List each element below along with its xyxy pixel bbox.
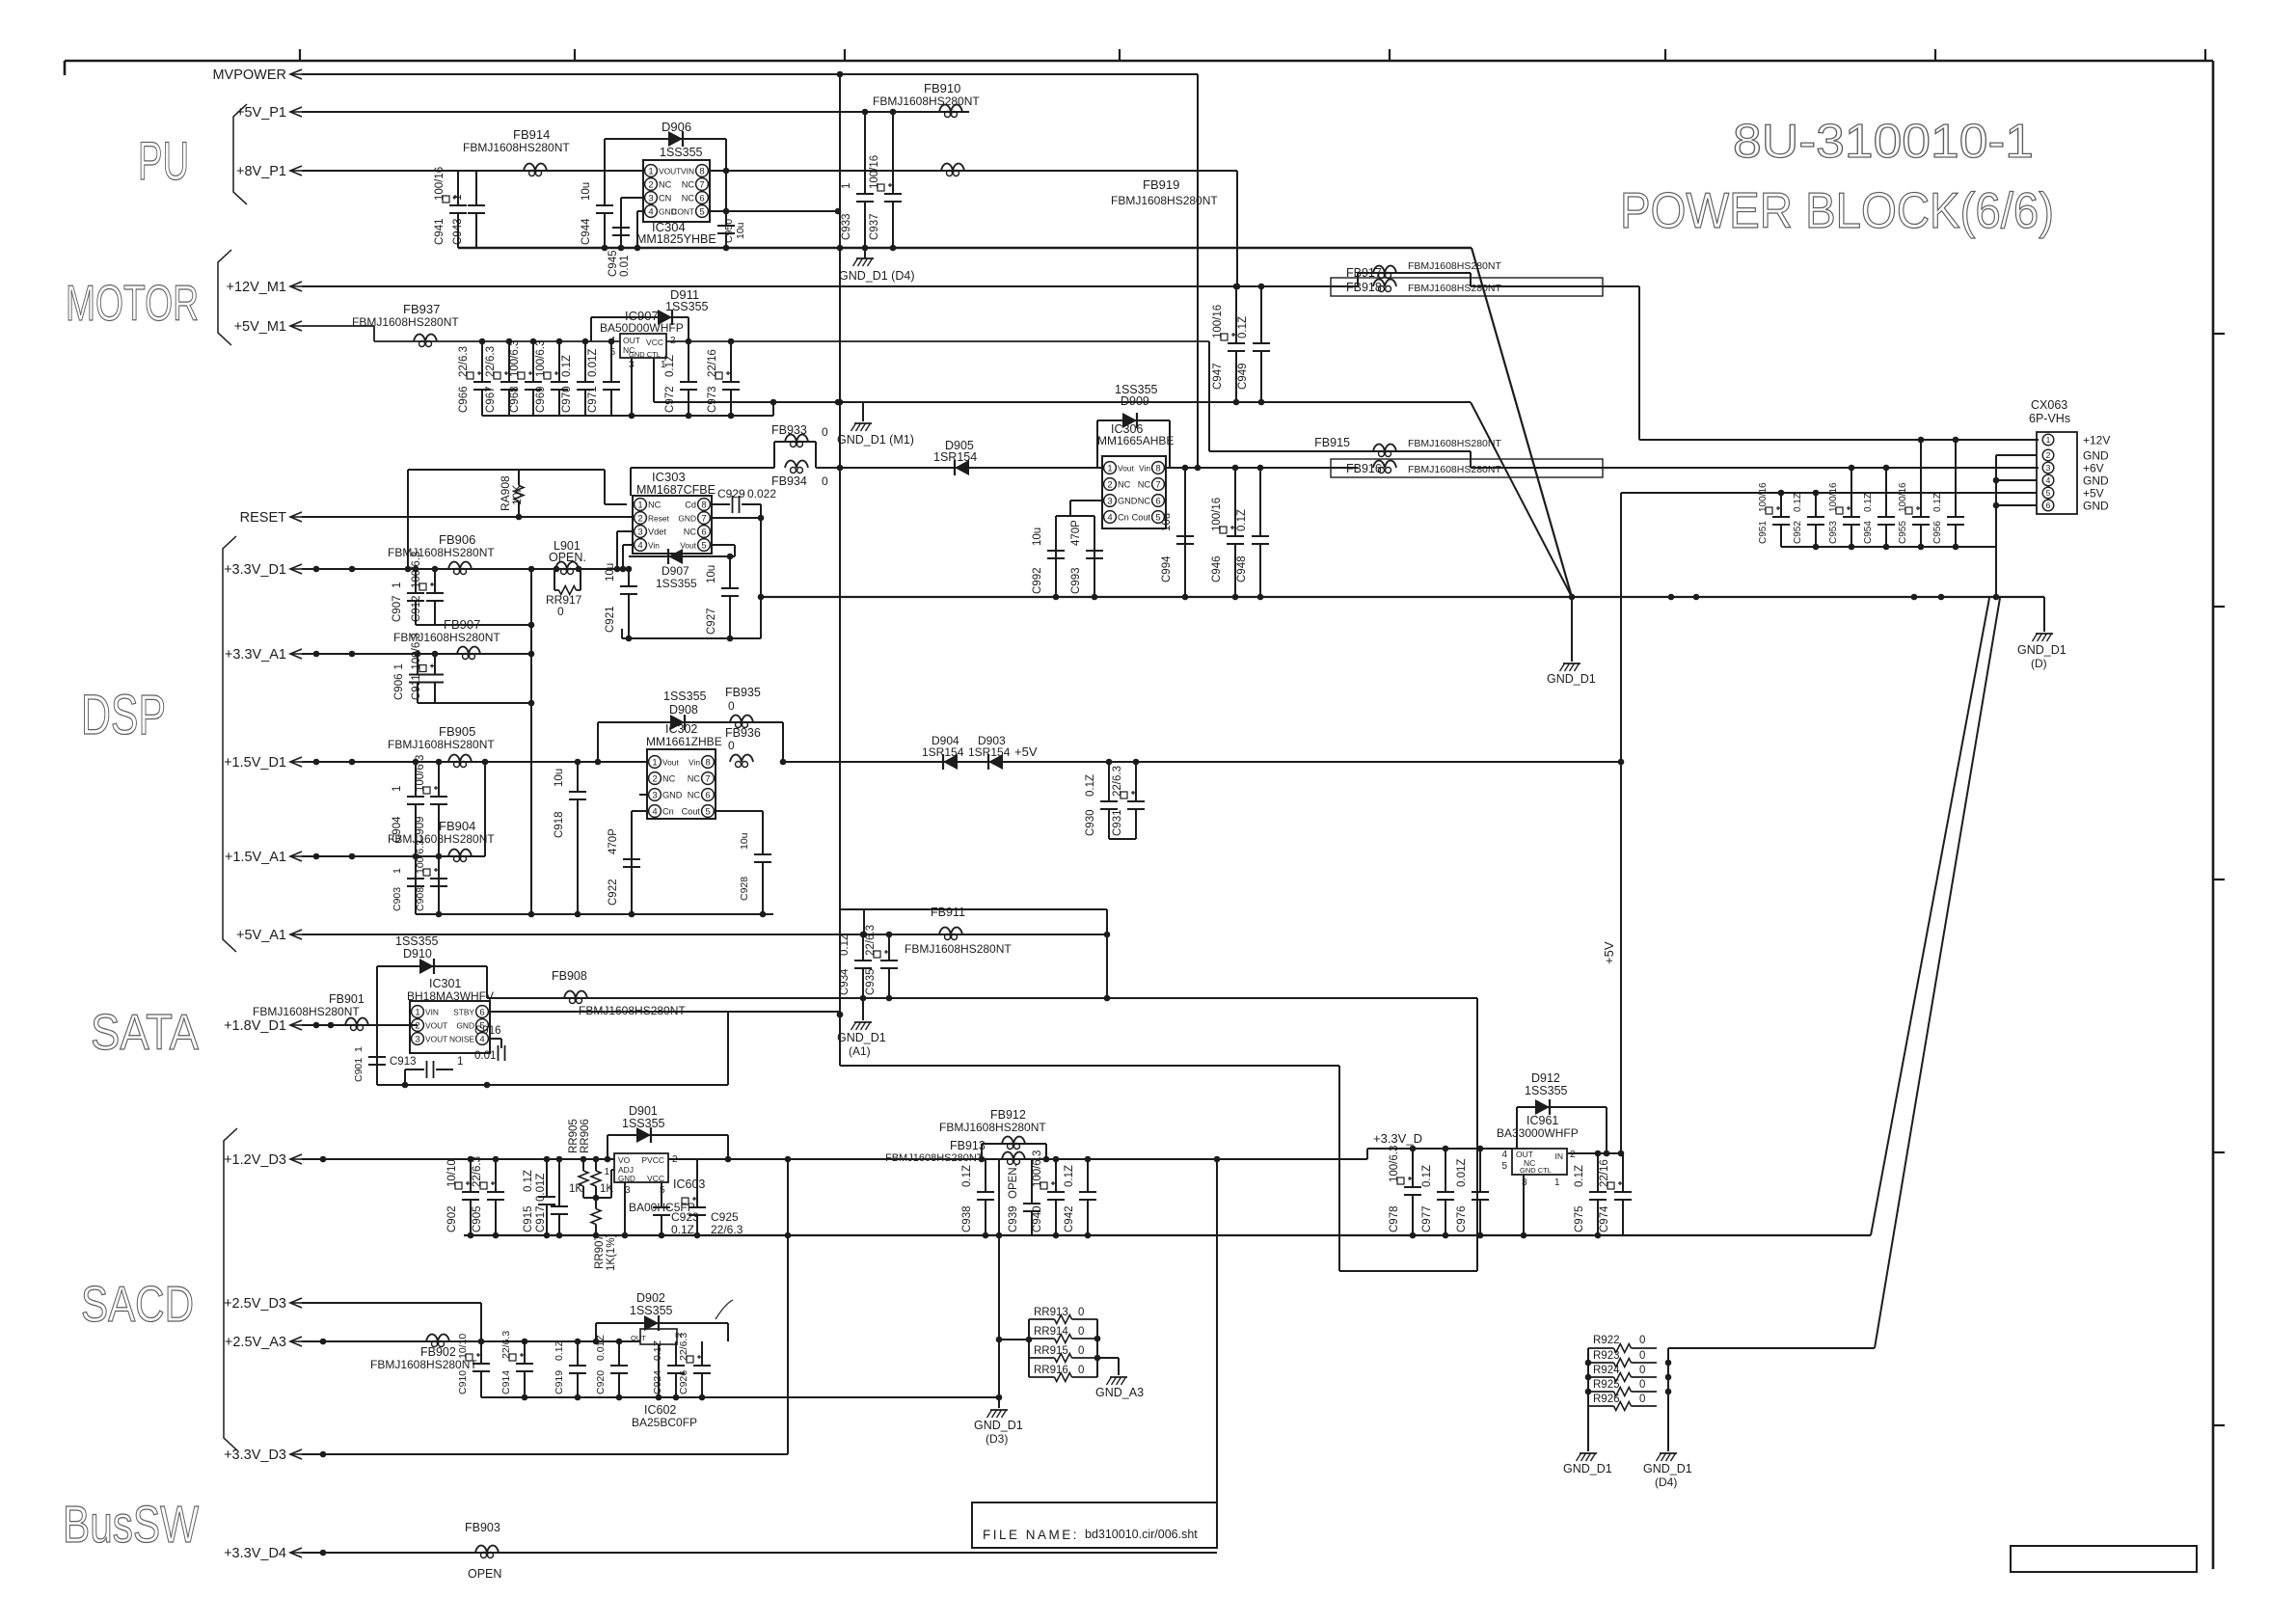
svg-text:C919: C919: [554, 1370, 565, 1394]
capacitor C950: [717, 211, 746, 248]
svg-text:0: 0: [1078, 1326, 1084, 1338]
svg-text:(A1): (A1): [849, 1044, 871, 1058]
svg-text:6: 6: [1155, 496, 1160, 506]
svg-text:0.1Z: 0.1Z: [1574, 1165, 1585, 1187]
svg-text:C944: C944: [581, 218, 592, 245]
svg-text:NC: NC: [688, 791, 701, 800]
svg-text:FB914: FB914: [513, 127, 550, 142]
node +5V label: [1014, 744, 1038, 759]
capacitor C925: [682, 1159, 743, 1236]
svg-text:FBMJ1608HS280NT: FBMJ1608HS280NT: [1111, 194, 1218, 207]
resistor R923: [1588, 1350, 1657, 1367]
capacitor C974: [1599, 1153, 1632, 1235]
svg-text:1SS355: 1SS355: [622, 1117, 665, 1130]
svg-text:FBMJ1608HS280NT: FBMJ1608HS280NT: [1408, 283, 1501, 294]
svg-text:1SS355: 1SS355: [630, 1304, 673, 1317]
op-amp IC303: [633, 470, 716, 554]
svg-text:C929: C929: [717, 487, 745, 501]
svg-text:C933: C933: [841, 214, 852, 241]
section bracket PU: [233, 104, 247, 204]
capacitor C910: [457, 1334, 490, 1397]
svg-text:GND: GND: [2083, 500, 2109, 513]
svg-text:GND: GND: [662, 791, 683, 800]
svg-text:1SS355: 1SS355: [660, 146, 703, 159]
wire IC304 pin4 GND stub: [637, 211, 644, 248]
svg-text:C901: C901: [353, 1058, 365, 1082]
capacitor C911: [411, 633, 444, 703]
svg-text:0: 0: [728, 699, 735, 713]
svg-text:MOTOR: MOTOR: [66, 276, 199, 332]
svg-text:C925: C925: [711, 1210, 739, 1224]
capacitor C943: [452, 171, 485, 248]
wire diagonal bus to SACD bus: [1871, 598, 1989, 1235]
node +8V_P1: [236, 164, 1237, 179]
svg-text:1SR154: 1SR154: [933, 450, 977, 464]
capacitor C927: [706, 556, 739, 638]
wire FB934 to D905: [816, 465, 1102, 472]
capacitor C953: [1828, 468, 1860, 547]
svg-text:Reset: Reset: [648, 514, 670, 524]
svg-text:0.1Z: 0.1Z: [1793, 493, 1803, 512]
capacitor C940: [1032, 1150, 1065, 1235]
svg-text:1: 1: [841, 183, 852, 189]
svg-text:MVPOWER: MVPOWER: [212, 68, 286, 83]
svg-text:D910: D910: [403, 947, 432, 961]
svg-text:NC: NC: [682, 180, 695, 190]
svg-text:1SR154: 1SR154: [968, 745, 1011, 759]
svg-text:R925: R925: [1593, 1379, 1620, 1391]
resistor RR917: [546, 586, 582, 619]
svg-text:2: 2: [1107, 479, 1112, 490]
svg-text:C954: C954: [1863, 521, 1874, 544]
svg-text:1: 1: [604, 1167, 609, 1177]
svg-text:C975: C975: [1574, 1206, 1585, 1233]
ground GND_D1 center: [1547, 597, 1596, 686]
svg-text:C934: C934: [839, 968, 851, 995]
node +3.3V_A1: [225, 647, 531, 663]
svg-text:C950: C950: [723, 219, 735, 243]
svg-text:0.1Z: 0.1Z: [1421, 1165, 1433, 1187]
capacitor C993: [1070, 520, 1103, 597]
svg-text:C911: C911: [411, 674, 422, 700]
wire PU bottom rail: [458, 245, 1472, 252]
svg-text:470P: 470P: [608, 828, 619, 854]
capacitor C935: [865, 925, 898, 998]
svg-text:FBMJ1608HS280NT: FBMJ1608HS280NT: [579, 1004, 686, 1017]
svg-text:100/6.3: 100/6.3: [415, 755, 426, 792]
svg-text:OPEN.: OPEN.: [1008, 1164, 1019, 1199]
svg-text:C913: C913: [390, 1056, 417, 1068]
resistor RA908 box: [408, 470, 627, 569]
wire +12V to connector: [1471, 286, 2039, 443]
svg-text:C974: C974: [1599, 1205, 1610, 1232]
ferrite bead FB914: [463, 127, 570, 176]
svg-text:Vout: Vout: [662, 758, 679, 768]
svg-text:6: 6: [701, 527, 706, 537]
capacitor C944: [581, 171, 613, 248]
revision box: [2011, 1546, 2197, 1572]
svg-text:0.1Z: 0.1Z: [664, 355, 676, 377]
svg-text:GND_D1: GND_D1: [2017, 643, 2066, 657]
svg-text:C972: C972: [664, 387, 676, 414]
wire IC603 gnd stub: [624, 1182, 626, 1235]
svg-text:C906: C906: [393, 674, 405, 701]
svg-text:0.01Z: 0.01Z: [535, 1174, 547, 1202]
svg-text:2: 2: [2046, 450, 2051, 460]
capacitor C968: [509, 340, 542, 416]
svg-text:C971: C971: [587, 387, 599, 414]
svg-text:2: 2: [637, 513, 642, 524]
svg-text:22/16: 22/16: [1599, 1159, 1610, 1187]
svg-text:C949: C949: [1237, 364, 1249, 391]
capacitor C952: [1793, 493, 1824, 547]
svg-text:3: 3: [415, 1034, 419, 1044]
regulator IC306: [1097, 422, 1174, 528]
title text 8U-310010-1: [1733, 116, 2034, 168]
svg-text:10/10: 10/10: [446, 1159, 458, 1187]
node MVPOWER: [212, 68, 1198, 83]
svg-text:4: 4: [652, 806, 657, 817]
node +3.3V_D3: [224, 1448, 788, 1463]
capacitor C922: [608, 828, 640, 914]
svg-text:C967: C967: [485, 387, 497, 414]
svg-text:Cd: Cd: [685, 501, 696, 510]
svg-text:C931: C931: [1112, 810, 1123, 837]
capacitor C967: [485, 341, 518, 416]
svg-text:5: 5: [1155, 512, 1160, 523]
ferrite bead FB934: [771, 461, 828, 489]
svg-text:C956: C956: [1932, 521, 1943, 544]
regulator IC302: [646, 722, 722, 819]
diode D904: [922, 734, 964, 770]
svg-text:(D3): (D3): [986, 1432, 1008, 1446]
svg-text:FB916: FB916: [1346, 462, 1382, 475]
svg-text:C993: C993: [1070, 568, 1082, 595]
capacitor C942: [1064, 1159, 1096, 1235]
capacitor C975: [1574, 1153, 1607, 1235]
svg-text:C947: C947: [1212, 364, 1224, 391]
svg-text:FBMJ1608HS280NT: FBMJ1608HS280NT: [905, 942, 1012, 956]
svg-text:CN: CN: [659, 194, 671, 203]
svg-text:C941: C941: [434, 219, 446, 246]
svg-text:MM1661ZHBE: MM1661ZHBE: [646, 735, 722, 748]
capacitor C906: [393, 654, 426, 703]
svg-text:0.1Z: 0.1Z: [1863, 493, 1874, 512]
svg-text:C915: C915: [523, 1206, 534, 1233]
svg-text:0: 0: [822, 425, 828, 439]
svg-text:FB936: FB936: [725, 726, 761, 740]
svg-text:22/6.3: 22/6.3: [485, 346, 497, 377]
svg-text:C992: C992: [1032, 568, 1043, 595]
svg-text:FB934: FB934: [771, 474, 807, 488]
svg-text:1K(1%): 1K(1%): [606, 1233, 617, 1271]
svg-text:0.01Z: 0.01Z: [587, 349, 599, 377]
svg-text:2: 2: [1570, 1150, 1576, 1160]
svg-text:3: 3: [1107, 496, 1112, 506]
diode D911: [591, 287, 709, 341]
svg-text:1SR154: 1SR154: [922, 745, 964, 759]
svg-text:0.01: 0.01: [474, 1050, 496, 1062]
svg-text:FB904: FB904: [439, 819, 475, 833]
svg-text:(D4): (D4): [1655, 1475, 1677, 1489]
ground GND_D1 (M1): [837, 402, 914, 447]
svg-text:8: 8: [701, 500, 706, 510]
capacitor C951: [1758, 482, 1790, 547]
node +3.3V_D label: [1367, 1131, 1512, 1159]
svg-text:D901: D901: [629, 1104, 658, 1118]
svg-text:C935: C935: [865, 969, 877, 996]
svg-text:5: 5: [2046, 488, 2051, 498]
svg-text:C943: C943: [452, 219, 464, 246]
svg-text:+1.5V_A1: +1.5V_A1: [225, 850, 286, 865]
svg-text:FB911: FB911: [931, 906, 965, 919]
wire SATA bottom rail: [377, 1012, 728, 1088]
capacitor C938: [961, 1159, 994, 1235]
svg-text:3: 3: [2046, 463, 2051, 473]
svg-text:10u: 10u: [1161, 513, 1173, 531]
svg-text:10u: 10u: [581, 182, 592, 201]
svg-text:FBMJ1608HS280NT: FBMJ1608HS280NT: [1408, 260, 1501, 272]
ferrite bead FB933: [771, 423, 828, 468]
wire bus corner to gnd D: [2017, 597, 2066, 670]
wire IC303 gnd7: [712, 504, 764, 638]
svg-text:STBY: STBY: [453, 1008, 474, 1017]
svg-text:1: 1: [1107, 463, 1112, 474]
diode D907: [629, 549, 735, 590]
capacitor C914: [500, 1331, 533, 1397]
svg-text:1: 1: [457, 1056, 463, 1068]
ferrite bead FB906: [388, 532, 495, 575]
svg-text:10u: 10u: [706, 565, 717, 583]
svg-text:FB937: FB937: [403, 302, 440, 316]
svg-text:D907: D907: [662, 564, 689, 578]
ferrite bead FB907: [393, 617, 500, 660]
capacitor C939: [1008, 1159, 1040, 1235]
svg-text:FB918: FB918: [1346, 281, 1382, 294]
svg-text:6: 6: [479, 1007, 484, 1017]
wire R92x frame: [1585, 1348, 1672, 1406]
wire FB904 riser: [484, 762, 486, 856]
svg-text:100/16: 100/16: [1828, 482, 1839, 512]
svg-text:NC: NC: [1118, 480, 1131, 490]
ferrite bead FB916: [1331, 459, 1603, 477]
op-amp IC304: [636, 160, 716, 246]
svg-text:Vin: Vin: [1139, 464, 1150, 474]
svg-text:FBMJ1608HS280NT: FBMJ1608HS280NT: [388, 738, 495, 751]
svg-text:FB913: FB913: [950, 1139, 986, 1152]
node +3.3V_D4: [224, 1546, 1217, 1561]
svg-text:OUT: OUT: [631, 1334, 646, 1342]
ferrite bead FB935: [725, 686, 783, 762]
capacitor C930: [1085, 762, 1118, 839]
svg-text:RR916: RR916: [1034, 1365, 1068, 1376]
svg-text:1SS355: 1SS355: [663, 690, 707, 703]
regulator IC907: [600, 309, 684, 370]
svg-text:+1.2V_D3: +1.2V_D3: [224, 1152, 286, 1168]
svg-text:FBMJ1608HS280NT: FBMJ1608HS280NT: [939, 1121, 1046, 1134]
svg-text:FBMJ1608HS280NT: FBMJ1608HS280NT: [388, 832, 495, 846]
wire motor bottom rail: [482, 402, 773, 419]
svg-text:2: 2: [672, 1154, 678, 1165]
svg-text:C908: C908: [415, 887, 426, 911]
svg-text:100/6.3: 100/6.3: [411, 552, 422, 588]
wire IC602 out stub: [658, 1344, 660, 1397]
svg-text:100/6.3: 100/6.3: [411, 633, 422, 669]
svg-text:C978: C978: [1389, 1206, 1400, 1233]
svg-text:0: 0: [1078, 1345, 1084, 1357]
svg-text:3: 3: [652, 790, 657, 800]
svg-text:0: 0: [1639, 1350, 1645, 1362]
svg-text:CX063: CX063: [2031, 398, 2067, 412]
svg-text:0: 0: [1078, 1307, 1084, 1318]
svg-text:0.1Z: 0.1Z: [1237, 316, 1249, 338]
svg-text:1: 1: [415, 1007, 419, 1017]
svg-text:1: 1: [393, 663, 405, 669]
resistor RR906: [569, 1119, 613, 1198]
svg-text:0.1Z: 0.1Z: [1932, 493, 1943, 512]
svg-text:GND_D1 (M1): GND_D1 (M1): [837, 433, 914, 447]
file name box: [972, 1502, 1217, 1548]
svg-text:RESET: RESET: [240, 510, 286, 526]
ferrite bead FB917: [1346, 260, 1501, 286]
wire D910 verticals: [377, 966, 487, 1025]
svg-text:Vout: Vout: [1118, 464, 1134, 474]
svg-text:GND_D1 (D4): GND_D1 (D4): [839, 269, 915, 283]
wire STBY line: [490, 1012, 843, 1018]
svg-text:6: 6: [699, 193, 704, 203]
svg-text:+8V_P1: +8V_P1: [236, 164, 286, 179]
svg-text:4: 4: [2046, 475, 2051, 485]
section label DSP: [81, 684, 166, 746]
svg-text:NC: NC: [688, 774, 701, 784]
svg-text:R926: R926: [1593, 1394, 1620, 1405]
svg-text:+3.3V_D1: +3.3V_D1: [224, 562, 286, 578]
svg-text:+12V_M1: +12V_M1: [227, 280, 286, 295]
capacitor C945: [608, 198, 631, 277]
svg-text:1: 1: [652, 757, 657, 768]
svg-text:MM1665AHBE: MM1665AHBE: [1097, 434, 1174, 447]
svg-text:C969: C969: [535, 387, 547, 414]
wire DSP bottom rail: [416, 911, 773, 918]
resistor RR913: [1029, 1307, 1097, 1324]
svg-text:(D): (D): [2031, 657, 2047, 670]
capacitor C918: [554, 762, 586, 914]
capacitor C924: [652, 1340, 685, 1397]
wire FB912 gnd riser: [996, 1159, 1003, 1408]
svg-text:4: 4: [648, 206, 653, 217]
svg-text:100/6.3: 100/6.3: [415, 840, 426, 874]
svg-text:+3.3V_D: +3.3V_D: [1373, 1131, 1422, 1146]
svg-text:BA50D00WHFP: BA50D00WHFP: [600, 321, 684, 335]
svg-text:+3.3V_A1: +3.3V_A1: [225, 647, 286, 663]
svg-text:C918: C918: [554, 812, 565, 839]
svg-text:1: 1: [392, 582, 403, 588]
ground GND_D1 (D4): [839, 248, 915, 283]
svg-text:100/6.3: 100/6.3: [1389, 1146, 1400, 1182]
svg-text:Cn: Cn: [662, 807, 674, 817]
capacitor C992: [1032, 526, 1065, 597]
svg-text:FB910: FB910: [924, 81, 960, 95]
svg-text:D908: D908: [669, 703, 698, 717]
svg-text:1SS355: 1SS355: [665, 300, 709, 313]
capacitor C908: [415, 840, 447, 914]
svg-text:100/6.3: 100/6.3: [535, 340, 547, 377]
ground GND_D1 (D3): [974, 1410, 1023, 1446]
svg-text:1: 1: [2046, 435, 2051, 445]
svg-text:C923: C923: [671, 1210, 699, 1224]
svg-text:3: 3: [648, 193, 653, 203]
svg-text:C952: C952: [1793, 521, 1803, 544]
section label SACD: [81, 1277, 194, 1333]
svg-text:5: 5: [701, 540, 706, 551]
svg-text:2: 2: [670, 336, 676, 346]
diode D909: [1097, 383, 1170, 468]
svg-text:C939: C939: [1008, 1206, 1019, 1233]
capacitor C933: [841, 112, 874, 248]
capacitor C970: [561, 341, 594, 416]
svg-text:0: 0: [1639, 1394, 1645, 1405]
wire Vin line dots: [1182, 465, 1264, 472]
svg-text:8: 8: [1155, 463, 1160, 474]
svg-text:+1.8V_D1: +1.8V_D1: [224, 1018, 286, 1034]
svg-text:C955: C955: [1898, 521, 1908, 544]
capacitor C907: [392, 569, 424, 625]
ferrite bead FB902: [370, 1335, 477, 1372]
svg-text:100/6.3: 100/6.3: [509, 340, 521, 377]
svg-text:6P-VHs: 6P-VHs: [2029, 412, 2070, 425]
svg-text:FBMJ1608HS280NT: FBMJ1608HS280NT: [388, 546, 495, 559]
svg-text:+3.3V_D3: +3.3V_D3: [224, 1448, 286, 1463]
wire IC907 pin1 stub: [653, 358, 655, 402]
svg-text:+6V: +6V: [2083, 462, 2104, 475]
svg-text:SACD: SACD: [81, 1277, 194, 1333]
svg-text:GND: GND: [678, 514, 696, 524]
wire FB933 pair to IC303: [631, 468, 774, 496]
svg-text:GND_D1: GND_D1: [837, 1031, 886, 1044]
svg-text:GND_A3: GND_A3: [1095, 1386, 1144, 1399]
svg-text:R924: R924: [1593, 1365, 1620, 1376]
ferrite bead FB901: [253, 992, 368, 1031]
svg-text:NOISE: NOISE: [449, 1035, 474, 1044]
resistor RR907: [591, 1198, 617, 1271]
svg-text:POWER BLOCK(6/6): POWER BLOCK(6/6): [1620, 183, 2054, 239]
svg-text:22/6.3: 22/6.3: [678, 1333, 689, 1361]
svg-text:1: 1: [637, 500, 642, 510]
svg-text:NC: NC: [1138, 497, 1151, 506]
svg-text:FBMJ1608HS280NT: FBMJ1608HS280NT: [885, 1152, 984, 1164]
node +1.2V_D3: [224, 1152, 1367, 1168]
svg-text:C930: C930: [1085, 810, 1096, 837]
resistor RR914: [1029, 1326, 1097, 1343]
ferrite bead FB912: [939, 1108, 1046, 1159]
svg-text:NC: NC: [684, 528, 697, 537]
svg-text:6: 6: [2046, 501, 2051, 510]
svg-text:C927: C927: [706, 609, 717, 636]
svg-text:RR913: RR913: [1034, 1307, 1068, 1318]
svg-text:RR906: RR906: [580, 1119, 591, 1153]
svg-text:10u: 10u: [735, 222, 746, 239]
section label SATA: [91, 1005, 199, 1061]
svg-text:FB906: FB906: [439, 532, 475, 547]
regulator IC301: [407, 977, 494, 1053]
capacitor C917: [535, 1159, 568, 1235]
capacitor C941: [434, 167, 467, 248]
wire IC306 gnd stubs: [1056, 501, 1102, 597]
svg-text:0.1Z: 0.1Z: [523, 1170, 534, 1192]
svg-text:R922: R922: [1593, 1335, 1620, 1346]
svg-text:+1.5V_D1: +1.5V_D1: [224, 755, 286, 771]
ground GND_D1 left: [1563, 1453, 1612, 1475]
